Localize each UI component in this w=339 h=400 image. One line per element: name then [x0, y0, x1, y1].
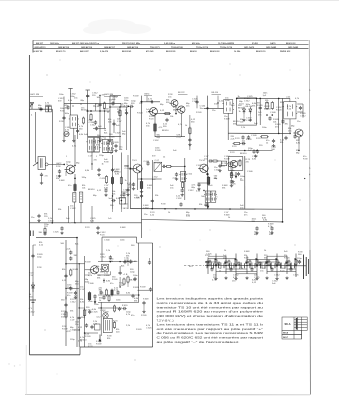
can bottom tie 1: [88, 151, 100, 153]
ground: [37, 219, 40, 222]
svg-text:1622 kHz: 1622 kHz: [50, 43, 59, 45]
resistor R em GM4: [154, 123, 157, 133]
resistor: [105, 289, 107, 297]
strip extra cap: [237, 261, 240, 265]
cap r a: [284, 136, 287, 140]
right top rail y98.4: [237, 97, 290, 99]
diode tail a: [243, 114, 245, 118]
input wire y109: [29, 108, 52, 110]
svg-text:C 652: C 652: [104, 275, 110, 277]
strip v7: [266, 256, 268, 274]
strip v10: [295, 254, 297, 278]
cap mid rail: [140, 194, 143, 198]
IF transformer can: [86, 138, 95, 153]
strip gnd extra a: [224, 277, 227, 280]
strip extra v: [271, 263, 273, 269]
svg-text:au pôle négatif “–” de l'accum: au pôle négatif “–” de l'accumulateur.: [157, 340, 240, 344]
cap x231: [230, 179, 233, 183]
resistor R613: [120, 176, 122, 185]
gnd x110: [108, 139, 111, 142]
vertical x128: [127, 155, 129, 209]
vertical x77 down: [76, 238, 78, 347]
ground: [96, 231, 99, 234]
ground under C604: [40, 182, 43, 185]
svg-text:C 625: C 625: [246, 120, 252, 122]
strip extra res: [209, 260, 211, 267]
IF transformer can: [69, 115, 79, 128]
cap extra b: [76, 129, 79, 133]
resistor box b: [123, 278, 125, 286]
wire y179: [138, 178, 162, 180]
svg-text:GR1 OA79: GR1 OA79: [244, 46, 255, 49]
ground: [114, 149, 117, 152]
strip wire c2: [257, 261, 277, 263]
cap lob d: [78, 316, 81, 320]
svg-text:R 169: R 169: [112, 279, 118, 281]
cap x270: [268, 116, 271, 120]
transistor TS10: [198, 164, 208, 172]
strip resistor 9: [295, 258, 297, 265]
svg-text:R 620: R 620: [155, 162, 161, 164]
resistor extra c: [82, 117, 84, 125]
strip resistor 7: [276, 258, 278, 265]
resistor y306: [113, 305, 115, 313]
svg-text:R 169: R 169: [62, 328, 68, 330]
vertical x100: [99, 99, 101, 140]
vertical x141.5 lower: [141, 209, 143, 238]
svg-text:S 648: S 648: [244, 251, 250, 253]
strip extra res: [268, 260, 270, 267]
cap below y222 a: [255, 226, 258, 230]
svg-text:R 620: R 620: [136, 329, 142, 331]
resistor R633: [165, 165, 172, 167]
svg-text:C 612: C 612: [70, 208, 76, 210]
speaker bars: [303, 255, 305, 280]
strip gnd 2: [234, 277, 237, 280]
transistor TS11: [293, 129, 303, 137]
capacitor: [241, 142, 245, 145]
arrow: [235, 172, 238, 179]
svg-text:TS11b OC74: TS11b OC74: [220, 46, 233, 49]
ground: [231, 180, 234, 183]
resistor em driver: [88, 291, 91, 301]
ground: [60, 232, 63, 235]
resistor y143: [233, 142, 241, 144]
ground: [254, 155, 257, 158]
cap near TS9: [146, 161, 149, 165]
svg-text:B8 410: B8 410: [264, 108, 271, 110]
coil output node: [45, 163, 48, 166]
box left upper: [101, 237, 103, 262]
svg-text:C 612: C 612: [274, 275, 280, 277]
svg-text:C 640: C 640: [214, 169, 220, 171]
left page edge lower: [25, 345, 27, 395]
strip extra cap: [258, 261, 261, 265]
svg-text:C 612: C 612: [300, 115, 306, 117]
vertical x112: [112, 155, 114, 209]
arrow: [94, 299, 97, 305]
cap x260: [259, 106, 262, 110]
bottom wire left segment: [29, 354, 80, 356]
left border wire: [28, 55, 30, 355]
svg-text:GM4 AF117: GM4 AF117: [104, 46, 116, 49]
capacitor: [116, 290, 119, 294]
strip lower wire a: [216, 271, 257, 273]
cap em driver: [93, 294, 96, 298]
strip v4: [235, 254, 237, 278]
cap extra g: [126, 188, 129, 192]
cap mid rail2: [151, 199, 154, 203]
vertical x278: [278, 98, 280, 133]
svg-text:C 625: C 625: [115, 133, 121, 135]
strip gnd extra b: [245, 277, 248, 280]
box det: [120, 198, 126, 205]
vertical wire x52: [51, 109, 53, 223]
cap x273: [272, 139, 275, 143]
svg-text:R 169: R 169: [85, 336, 91, 338]
strip extra res: [288, 260, 290, 267]
svg-text:R 169: R 169: [141, 315, 147, 317]
junction dot x207: [206, 107, 208, 109]
vertical x64: [63, 104, 65, 139]
coil hatch pair: [73, 193, 76, 203]
strip extra v: [241, 263, 243, 269]
svg-text:SK-B: SK-B: [283, 333, 289, 335]
wire y150.5: [228, 150, 273, 152]
cap extra h: [165, 118, 168, 122]
strip cap low: [270, 267, 273, 271]
base wire: [85, 269, 90, 271]
svg-text:C 640: C 640: [251, 135, 257, 137]
svg-text:R 620: R 620: [137, 113, 143, 115]
strip cap low: [210, 267, 213, 271]
resistor mid box: [127, 276, 129, 284]
capacitor C611: [125, 111, 128, 115]
resistor R626: [164, 113, 171, 115]
strip extra v: [281, 263, 283, 269]
svg-text:S 648: S 648: [73, 269, 79, 271]
vertical x66: [65, 240, 67, 346]
strip main wire: [205, 264, 306, 267]
capacitor C616: [104, 188, 107, 192]
stub x114 top: [113, 96, 115, 104]
svg-text:IF 452: IF 452: [252, 42, 259, 45]
wire y113.6: [155, 113, 170, 115]
collector feed x75: [74, 135, 76, 165]
cap below trafo: [281, 119, 284, 123]
svg-text:B8 222 41: B8 222 41: [122, 50, 132, 53]
svg-text:TS10 AC126: TS10 AC126: [171, 46, 184, 49]
box TS stage: [228, 157, 243, 171]
ground: [97, 173, 100, 176]
svg-text:B8 410: B8 410: [162, 130, 169, 132]
cap right inner: [142, 301, 145, 305]
capacitor C604: [40, 173, 43, 177]
svg-text:GM3 AF116: GM3 AF116: [81, 46, 93, 49]
resistor: [111, 289, 113, 297]
svg-text:SK-P: SK-P: [283, 337, 289, 339]
svg-text:C 612: C 612: [244, 100, 250, 102]
vertical x282.5: [282, 98, 284, 221]
svg-text:+1 B: +1 B: [123, 274, 128, 276]
svg-text:C 625: C 625: [100, 178, 106, 180]
svg-text:C 652: C 652: [176, 198, 182, 200]
resistor below T3: [182, 181, 184, 189]
cap box a: [123, 260, 126, 264]
ground: [255, 232, 258, 235]
can feed x105: [104, 137, 106, 140]
resistor em TS9: [140, 180, 143, 190]
svg-text:R 169: R 169: [85, 262, 91, 264]
filter box FL: [154, 162, 162, 171]
IF transformer can: [204, 191, 212, 202]
svg-text:10,7 MHz AM/FM: 10,7 MHz AM/FM: [218, 42, 234, 45]
svg-text:TS9 OC71: TS9 OC71: [150, 47, 161, 49]
cap in box top: [109, 255, 112, 259]
vertical wire x35: [34, 112, 36, 163]
cap extra e: [112, 122, 115, 126]
wire y111: [86, 110, 110, 112]
svg-text:C 625: C 625: [146, 112, 152, 114]
arrow to rail: [207, 203, 210, 209]
stub: [85, 274, 90, 276]
svg-text:R 169: R 169: [96, 343, 102, 345]
vertical x244.8: [244, 156, 246, 209]
res box e: [108, 295, 110, 302]
resistor x267: [266, 101, 268, 110]
svg-text:R 620: R 620: [113, 142, 119, 144]
IF can T3: [179, 171, 187, 181]
vertical x184.8: [184, 158, 186, 200]
strip extra v: [220, 263, 222, 269]
strip extra v: [251, 263, 253, 269]
strip v2: [215, 254, 217, 278]
svg-text:C 625: C 625: [293, 275, 299, 277]
resistor x84 y310: [83, 309, 85, 317]
ground: [126, 193, 129, 196]
wire: [41, 177, 43, 182]
IF transformer can: [107, 140, 114, 153]
output transformer can: [283, 102, 298, 119]
svg-text:GM1 AF115: GM1 AF115: [35, 46, 47, 49]
wire y101.8: [142, 101, 161, 103]
strip gnd 3: [255, 277, 258, 280]
right page edge upper: [308, 40, 311, 250]
svg-text:R 620: R 620: [133, 287, 139, 289]
stub x100 up: [99, 96, 101, 99]
svg-text:C 612: C 612: [188, 190, 194, 192]
svg-text:R 620: R 620: [284, 258, 290, 260]
cap right of cans: [114, 144, 117, 148]
vertical x77: [77, 116, 79, 139]
resistor R637: [212, 160, 219, 162]
vertical x84.6: [84, 256, 86, 347]
vertical x87: [87, 90, 89, 137]
wire y275: [98, 274, 110, 276]
wire y288.4: [66, 287, 79, 289]
svg-text:TS11a OC74: TS11a OC74: [196, 46, 209, 49]
cap x133: [131, 294, 134, 298]
arrow down out: [99, 335, 102, 343]
stub GM5a down: [175, 107, 177, 114]
stub x95: [95, 104, 97, 111]
strip cap 4: [245, 260, 248, 264]
svg-text:6 V: 6 V: [29, 308, 33, 310]
gnd diode b: [249, 119, 252, 122]
transistor GM2: [65, 165, 75, 174]
svg-text:GM 1 FM: GM 1 FM: [30, 94, 39, 96]
strip v6: [256, 254, 258, 278]
wire y237.6: [36, 237, 77, 239]
wire below T2: [227, 113, 229, 140]
strip cap 0: [206, 260, 209, 264]
cap x66 mid: [64, 303, 67, 307]
vertical x120: [119, 107, 121, 150]
box top jog h: [137, 242, 153, 244]
cap mark: [127, 258, 129, 266]
TS9 emitter down: [137, 173, 139, 190]
gnd x100: [98, 139, 101, 142]
diode tail b: [249, 114, 251, 118]
strip cap low: [289, 267, 292, 271]
strip top wire a: [208, 258, 236, 260]
gnd TS9: [140, 190, 143, 193]
table dark column: [296, 318, 298, 330]
gnd x144: [142, 310, 145, 313]
svg-text:GM5 AF116: GM5 AF116: [127, 46, 139, 49]
strip h c: [267, 255, 287, 257]
thermistor circle in square: [102, 264, 109, 271]
cap right edge: [299, 106, 302, 110]
cap rail a: [60, 226, 63, 230]
cap left col: [74, 291, 77, 295]
ground: [218, 169, 221, 172]
cap lob b: [64, 274, 67, 278]
svg-text:C 625: C 625: [196, 165, 202, 167]
strip v8: [276, 254, 278, 278]
svg-text:C 652: C 652: [153, 140, 159, 142]
capacitor em TS9: [132, 182, 135, 186]
wire y263.8: [66, 263, 85, 265]
stub x147: [146, 96, 148, 102]
vertical x70 to top: [70, 89, 72, 116]
strip v5: [246, 256, 248, 274]
ground: [74, 296, 77, 299]
svg-text:B5 411 70: B5 411 70: [56, 50, 66, 53]
svg-text:AM 517-1622 kHz 185-570 m: AM 517-1622 kHz 185-570 m: [72, 42, 99, 45]
capacitor C620: [43, 231, 46, 235]
ground: [270, 232, 273, 235]
cap lower left: [237, 172, 240, 176]
ground: [197, 188, 200, 191]
svg-text:C 640: C 640: [88, 283, 94, 285]
strip v9: [286, 256, 288, 274]
cap b: [69, 256, 72, 260]
cap below y222 b: [270, 226, 273, 230]
svg-text:B8 410 03: B8 410 03: [286, 42, 296, 45]
left block extra ticks: [72, 105, 74, 107]
cap am in: [37, 214, 40, 218]
vertical x130.5: [130, 107, 132, 209]
rail y219.5-221.9: [142, 220, 283, 222]
svg-text:B8 415 19: B8 415 19: [256, 50, 266, 53]
strip gnd 4: [275, 277, 278, 280]
svg-text:C 612: C 612: [29, 312, 35, 314]
left col wire: [32, 245, 34, 316]
wire y261.6: [98, 261, 137, 263]
strip top wire b: [247, 259, 277, 261]
transistor GM5b: [176, 106, 185, 113]
svg-text:S 648: S 648: [224, 214, 230, 216]
ground: [132, 187, 135, 190]
resistor x231: [230, 171, 232, 179]
strip gnd extra d: [285, 277, 288, 280]
svg-text:C 640: C 640: [48, 220, 54, 222]
svg-text:R 620: R 620: [45, 105, 51, 107]
svg-text:C 612: C 612: [70, 301, 76, 303]
svg-text:B8 222 05: B8 222 05: [166, 51, 176, 53]
junction TS10 em: [206, 173, 208, 175]
transistor in box: [229, 160, 238, 167]
svg-text:C 640: C 640: [104, 240, 110, 242]
diode OA79: [31, 282, 34, 292]
svg-text:C 640: C 640: [270, 112, 276, 114]
svg-text:SK-A: SK-A: [285, 323, 291, 326]
svg-text:B8 410: B8 410: [80, 339, 87, 341]
svg-text:GM2 AF116: GM2 AF116: [58, 46, 70, 49]
scan specks: [8, 69, 290, 374]
box top edge: [102, 236, 137, 238]
wire y308: [98, 307, 122, 309]
transistor GM4: [148, 108, 157, 116]
vertical x152.3: [151, 160, 153, 209]
svg-text:R 169: R 169: [155, 150, 161, 152]
vertical x110: [109, 96, 111, 140]
ground: [272, 144, 275, 147]
jack circle: [228, 162, 233, 167]
cap right edge 2: [149, 287, 152, 291]
svg-text:R 169: R 169: [246, 139, 252, 141]
wire y136.7: [88, 136, 121, 138]
cap box d: [102, 295, 105, 299]
svg-text:GR3 OA85: GR3 OA85: [288, 46, 299, 49]
svg-text:C 612: C 612: [100, 256, 106, 258]
ground: [181, 193, 184, 196]
strip gnd extra c: [265, 277, 268, 280]
svg-text:B8 410 03: B8 410 03: [210, 50, 220, 53]
wire above C: [119, 266, 121, 271]
vertical x121: [120, 153, 122, 210]
svg-text:GR2 OA85: GR2 OA85: [266, 46, 277, 49]
capacitor: [230, 172, 233, 176]
vertical x189: [189, 115, 191, 150]
svg-text:FM 87,5-100,1 MHz: FM 87,5-100,1 MHz: [122, 43, 140, 45]
svg-text:C 640: C 640: [144, 161, 150, 163]
header top line: [33, 39, 309, 41]
svg-text:C 652: C 652: [187, 174, 193, 176]
svg-text:R 169: R 169: [103, 109, 109, 111]
svg-text:R 620: R 620: [276, 109, 282, 111]
svg-text:2,2k 470: 2,2k 470: [100, 50, 109, 53]
svg-text:C 625: C 625: [206, 254, 212, 256]
capacitor: [85, 323, 88, 327]
svg-text:C 640: C 640: [247, 171, 253, 173]
left inner vertical: [100, 302, 102, 330]
gnd x64: [62, 139, 65, 142]
svg-text:AB 8 227: AB 8 227: [80, 50, 90, 53]
emitter x155: [154, 115, 156, 137]
strip extra res: [249, 260, 251, 267]
